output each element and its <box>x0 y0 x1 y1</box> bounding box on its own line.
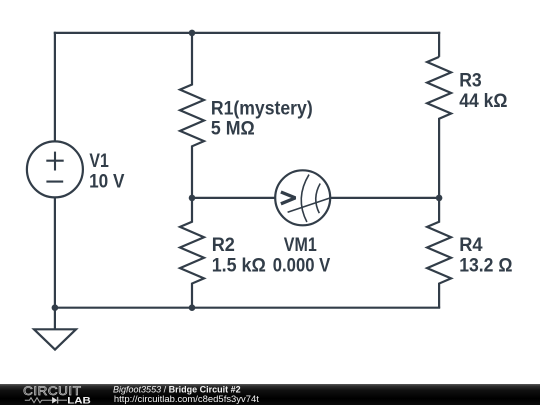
svg-text:R3: R3 <box>459 70 482 91</box>
svg-text:1.5 kΩ: 1.5 kΩ <box>212 256 266 277</box>
wire top rail <box>54 32 440 34</box>
svg-text:0.000 V: 0.000 V <box>273 256 331 277</box>
ground symbol <box>34 329 76 349</box>
node E (bottom middle junction) <box>189 304 196 311</box>
node D (ground junction) <box>52 304 59 311</box>
CircuitLab logo resistor-diode line <box>25 397 67 404</box>
svg-text:13.2 Ω: 13.2 Ω <box>459 256 512 277</box>
wire left rail (top of V1) <box>54 32 56 142</box>
resistor R1 <box>180 33 204 198</box>
wire middle left (node B to VM1) <box>192 197 275 199</box>
svg-text:44 kΩ: 44 kΩ <box>459 91 507 112</box>
svg-text:VM1: VM1 <box>284 235 317 256</box>
svg-text:V1: V1 <box>89 151 109 172</box>
resistor R3 <box>427 57 451 198</box>
wire bottom rail <box>54 307 440 309</box>
svg-text:R4: R4 <box>459 235 483 256</box>
node C (middle right junction) <box>436 195 443 202</box>
svg-text:R2: R2 <box>212 235 235 256</box>
node B (middle left junction) <box>189 195 196 202</box>
wire middle right (VM1 to node C) <box>330 197 439 199</box>
svg-text:Bigfoot3553 / Bridge Circuit #: Bigfoot3553 / Bridge Circuit #2 <box>113 385 241 395</box>
svg-text:5 MΩ: 5 MΩ <box>211 118 255 139</box>
svg-text:10 V: 10 V <box>89 172 125 193</box>
svg-text:http://circuitlab.com/c8ed5fs3: http://circuitlab.com/c8ed5fs3yv74t <box>114 394 259 404</box>
node A (top junction) <box>189 30 196 37</box>
resistor R2 <box>180 198 204 308</box>
voltmeter VM1 <box>275 170 330 225</box>
resistor R4 <box>427 198 451 308</box>
svg-text:LAB: LAB <box>67 395 91 405</box>
voltage source V1 <box>27 141 83 197</box>
wire ground stub <box>54 308 56 330</box>
wire V1 bottom lead <box>54 197 56 307</box>
wire right rail top <box>438 32 440 57</box>
svg-text:R1(mystery): R1(mystery) <box>211 98 313 119</box>
footer bar <box>0 384 540 405</box>
